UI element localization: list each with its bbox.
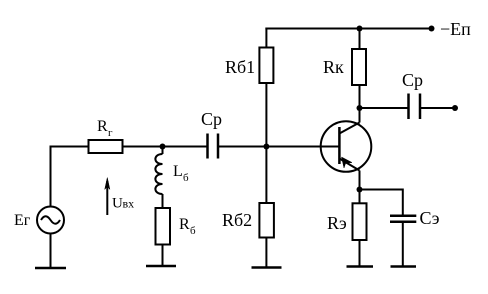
ground (source) — [35, 267, 66, 270]
resistor Rб2 — [259, 203, 274, 238]
ground (Rб) — [146, 265, 176, 268]
svg-text:г: г — [108, 127, 113, 139]
svg-text:Ср: Ср — [201, 109, 222, 129]
wire collector vertical — [359, 108, 361, 123]
resistor Rб1 — [259, 48, 273, 84]
svg-text:−Еп: −Еп — [440, 19, 471, 39]
wire emitter node to Сэ — [360, 189, 403, 217]
wire inductor to resistor Rб — [162, 194, 164, 208]
svg-text:б: б — [190, 225, 196, 237]
wire input line: source corner to Rг — [51, 146, 90, 148]
svg-text:R: R — [97, 118, 108, 135]
transistor VT base bar — [338, 127, 341, 164]
label Rг — [97, 118, 113, 139]
svg-text:Сэ: Сэ — [420, 208, 440, 228]
generator Ег — [37, 207, 64, 234]
wire left branch vertical to source Ег — [50, 146, 52, 207]
node input junction — [160, 144, 166, 150]
wire junction to inductor Lб — [162, 147, 164, 155]
wire emitter vertical — [359, 171, 361, 190]
node output terminal — [452, 105, 458, 111]
svg-text:вх: вх — [123, 197, 135, 211]
node terminal -Еп — [429, 26, 435, 32]
node top rail / Rк junction — [357, 26, 363, 32]
svg-text:L: L — [173, 163, 183, 180]
resistor Rг — [89, 140, 123, 153]
svg-text:Rб1: Rб1 — [225, 57, 255, 77]
capacitor Ср (input) — [208, 134, 219, 159]
wire collector node to output cap — [360, 107, 409, 109]
node collector junction — [357, 105, 363, 111]
ground (Rб2) — [252, 266, 282, 269]
ground (Сэ) — [391, 265, 417, 268]
capacitor Сэ — [390, 216, 416, 222]
wire Rб1 to top rail — [265, 28, 267, 48]
wire Rб to ground — [162, 245, 164, 267]
wire source to ground — [50, 234, 52, 269]
resistor Rб — [156, 208, 171, 245]
svg-text:Rб2: Rб2 — [222, 210, 252, 230]
node base junction — [263, 144, 269, 150]
resistor Rк — [352, 49, 366, 85]
wire base node down to Rб2 — [265, 147, 267, 204]
transistor VT circle — [321, 121, 372, 172]
svg-text:Ср: Ср — [402, 70, 423, 90]
svg-text:R: R — [179, 216, 190, 233]
transistor VT collector lead — [339, 123, 359, 134]
ground (Rэ) — [347, 265, 374, 268]
label Lб — [173, 163, 189, 184]
capacitor Ср (output) — [409, 94, 421, 120]
wire Rк to collector node — [359, 85, 361, 108]
wire base node up to Rб1 — [265, 83, 267, 147]
svg-text:б: б — [183, 172, 189, 184]
svg-text:U: U — [112, 196, 123, 212]
resistor Rэ — [353, 203, 367, 240]
label Uвх — [112, 196, 134, 212]
label Rб — [179, 216, 196, 237]
svg-text:Ег: Ег — [14, 212, 31, 229]
transistor VT emitter lead with arrow — [339, 157, 359, 171]
wire top rail — [265, 28, 431, 30]
wire Rб2 to ground — [265, 238, 267, 268]
wire Rг to input capacitor Ср — [123, 146, 207, 148]
wire Сэ to ground — [402, 222, 404, 267]
wire input cap to base node — [218, 146, 340, 148]
wire output cap to terminal — [420, 107, 455, 109]
wire emitter node to Rэ — [359, 190, 361, 204]
arrow Uвх — [105, 178, 110, 216]
wire top rail to Rк — [359, 29, 361, 50]
inductor Lб — [155, 154, 162, 194]
wire Rэ to ground — [359, 240, 361, 267]
svg-text:Rэ: Rэ — [327, 213, 347, 233]
node emitter junction — [357, 187, 363, 193]
svg-text:Rк: Rк — [323, 57, 344, 77]
